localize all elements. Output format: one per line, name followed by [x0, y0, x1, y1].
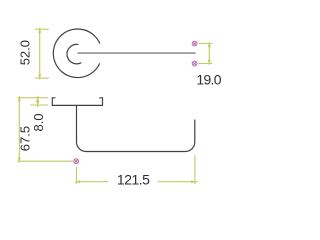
- dimension 19.0 lines: [198, 42, 212, 65]
- endpoint marker top (lever tip upper): [192, 41, 197, 46]
- dimension 67.5 arrowheads: [18, 98, 21, 162]
- svg-text:121.5: 121.5: [117, 172, 150, 188]
- rose profile (side view): [52, 98, 102, 106]
- grip neck arc (top view inner C): [67, 44, 81, 63]
- dimension 52.0 line: [35, 28, 49, 80]
- svg-text:52.0: 52.0: [17, 40, 32, 65]
- dimension 52.0 arrowheads: [38, 29, 41, 78]
- svg-text:19.0: 19.0: [196, 72, 221, 88]
- dimension 8.0 arrowheads: [36, 98, 39, 105]
- dimension 19.0 arrowheads: [208, 44, 211, 64]
- endpoint marker (grip bottom, side view): [74, 159, 79, 164]
- endpoint marker bottom (lever tip lower): [192, 61, 197, 66]
- rose circle (top view): [53, 29, 100, 78]
- lever profile (side view): [77, 105, 195, 151]
- dimension 121.5 arrowheads: [77, 180, 195, 183]
- dimension 121.5 lines: [75, 155, 197, 184]
- dimension 67.5 lines: [17, 96, 73, 163]
- dimension 8.0 lines: [30, 96, 48, 107]
- lever centerline (top view): [78, 52, 196, 54]
- svg-text:8.0: 8.0: [31, 113, 46, 131]
